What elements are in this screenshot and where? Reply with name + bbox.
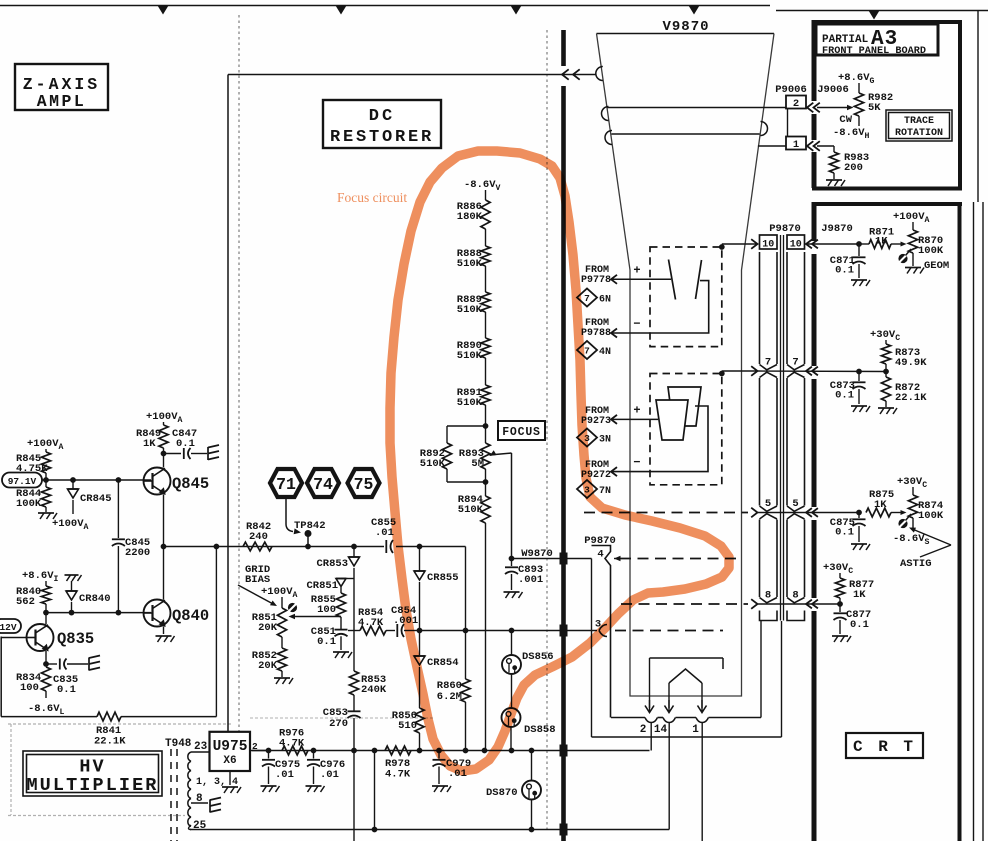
svg-text:0.1: 0.1 [850, 619, 869, 631]
deflection plate dashed box (vertical) [650, 374, 722, 485]
svg-text:X6: X6 [223, 755, 236, 767]
svg-text:DC: DC [369, 107, 395, 126]
svg-text:+100VA: +100VA [261, 586, 298, 600]
ground C875 [851, 543, 867, 545]
svg-text:0.1: 0.1 [835, 527, 854, 539]
wire row3 dashed [615, 630, 723, 632]
svg-text:-8.6VS: -8.6VS [893, 533, 930, 547]
ground C975 [261, 785, 277, 787]
svg-text:10: 10 [790, 240, 802, 251]
transformer T948 winding [188, 752, 191, 826]
wire Q840 base [46, 612, 151, 614]
svg-text:Q845: Q845 [172, 475, 209, 493]
svg-text:C R T: C R T [853, 738, 916, 756]
svg-text:2: 2 [793, 98, 799, 110]
wire bottom bus y=829.5 [190, 829, 567, 831]
resistor R844 100K [41, 487, 50, 507]
capacitor C975 .01 [268, 751, 270, 759]
wire Q845 emitter to node [163, 495, 165, 547]
svg-text:180K: 180K [457, 211, 483, 223]
resistor R841 22.1K [1, 716, 97, 718]
neon lamp DS870 [531, 751, 533, 781]
capacitor C979 .01 [438, 751, 440, 759]
resistor R852 20K [281, 637, 283, 648]
top flow arrows [158, 6, 169, 15]
resistor R983 200 [817, 145, 834, 147]
svg-text:+: + [633, 263, 640, 277]
svg-text:7: 7 [792, 357, 798, 369]
callout oval 12V [0, 619, 21, 633]
svg-text:GEOM: GEOM [924, 260, 949, 272]
svg-text:100K: 100K [918, 245, 944, 257]
ground C871 [851, 279, 867, 281]
svg-text:P9006: P9006 [775, 84, 807, 96]
junction squares on boundary bar [560, 553, 568, 565]
svg-text:J9006: J9006 [817, 84, 849, 96]
node at deflection box top right [719, 244, 725, 250]
label box PARTIAL A3 FRONT PANEL BOARD [816, 24, 938, 55]
svg-text:10: 10 [762, 240, 774, 251]
svg-text:1: 1 [692, 724, 699, 736]
connector row wires and arrows [722, 243, 757, 245]
wire CRT pin14 down [668, 723, 670, 830]
svg-text:+8.6VG: +8.6VG [838, 72, 875, 86]
svg-text:510K: 510K [457, 350, 483, 362]
svg-text:+100VA: +100VA [146, 411, 183, 425]
diode CR851 [341, 578, 354, 580]
svg-text:510K: 510K [457, 258, 483, 270]
svg-text:3N: 3N [599, 435, 611, 446]
neon lamp DS858 [502, 708, 521, 727]
svg-text:+: + [633, 403, 640, 417]
resistor R860 6.2M [461, 679, 470, 702]
CRT base pin arrows down [649, 700, 651, 712]
hexagon test point 75 [348, 469, 380, 497]
resistor R834 100 [41, 667, 50, 691]
svg-text:510K: 510K [457, 397, 483, 409]
svg-text:49.9K: 49.9K [895, 357, 927, 369]
wire right branch down [465, 547, 467, 680]
ground above CR840 [65, 574, 79, 576]
CRT pin bump right (grid) [761, 122, 768, 136]
svg-text:CW: CW [839, 114, 852, 126]
connector P9006 pin 2 [786, 96, 806, 109]
svg-text:-8.6VH: -8.6VH [833, 127, 870, 141]
svg-text:+8.6VI: +8.6VI [22, 570, 59, 584]
svg-text:CR854: CR854 [427, 657, 459, 669]
svg-text:74: 74 [313, 475, 333, 494]
svg-text:P9870: P9870 [769, 223, 801, 235]
diode CR853 [353, 547, 355, 558]
svg-text:4N: 4N [599, 347, 611, 358]
resistor R849 1K [159, 425, 168, 448]
wiper R893 to W9870 [490, 450, 497, 456]
svg-text:0.1: 0.1 [317, 636, 336, 648]
svg-text:Q835: Q835 [57, 630, 94, 648]
label box Z-AXIS AMPL [15, 64, 108, 110]
label box DC RESTORER [323, 100, 441, 148]
svg-text:6.2M: 6.2M [437, 691, 462, 703]
ground R870 [905, 267, 921, 269]
diode CR855 [419, 547, 421, 572]
resistor R873 49.9K [881, 344, 890, 364]
potentiometer R851 20K [277, 608, 286, 637]
svg-text:0.1: 0.1 [57, 684, 76, 696]
capacitor C873 0.1 [858, 372, 860, 382]
svg-text:AMPL: AMPL [37, 92, 87, 111]
ground C873 [851, 405, 867, 407]
scan artifact dotted separator x=547 [546, 30, 548, 831]
resistor R845 4.75K [41, 452, 50, 473]
svg-text:ASTIG: ASTIG [900, 558, 932, 570]
svg-text:−: − [633, 456, 640, 470]
svg-text:FOCUS: FOCUS [502, 426, 541, 439]
svg-text:5: 5 [765, 498, 771, 510]
svg-text:5K: 5K [868, 102, 881, 114]
label box CRT [846, 733, 923, 758]
svg-text:4: 4 [597, 549, 603, 561]
svg-text:20K: 20K [258, 660, 278, 672]
ground R844 [38, 512, 54, 514]
potentiometer R982 5K [854, 93, 863, 116]
wire Q840 collector [163, 547, 165, 600]
wire focus chain down [485, 523, 487, 751]
transformer T948 core [170, 749, 172, 841]
ground C979 [432, 785, 448, 787]
ground C851 [333, 651, 349, 653]
svg-text:2: 2 [640, 724, 647, 736]
svg-text:22.1K: 22.1K [94, 736, 126, 748]
wire Q835 emitter node [45, 651, 47, 664]
wire DS856 string [511, 631, 513, 655]
svg-text:22.1K: 22.1K [895, 392, 927, 404]
node row7 right [883, 369, 889, 375]
svg-text:5M: 5M [471, 458, 484, 470]
capacitor C871 0.1 [858, 244, 860, 256]
svg-text:+100VA: +100VA [52, 518, 89, 532]
CRT grid electrode line B [612, 133, 760, 135]
svg-text:100: 100 [20, 682, 39, 694]
svg-text:DS858: DS858 [524, 724, 556, 736]
svg-text:6N: 6N [599, 295, 611, 306]
connector P9870 rails [759, 252, 761, 364]
capacitor C976 .01 [313, 751, 315, 759]
resistor R888 510K [481, 246, 490, 266]
diode CR840 [71, 581, 73, 591]
page right border lines [977, 11, 979, 203]
svg-text:5: 5 [792, 498, 798, 510]
label box HV MULTIPLIER [23, 751, 162, 796]
svg-text:200: 200 [844, 162, 863, 174]
ground R983 [826, 179, 842, 181]
connector mating faces [780, 235, 782, 621]
wire row4 dashed [620, 558, 737, 560]
wire feedback riser [215, 547, 217, 717]
resistor R872 22.1K [881, 377, 890, 401]
wire T948 pin23 to U975 [191, 751, 210, 753]
svg-text:-8.6VV: -8.6VV [464, 179, 501, 193]
svg-text:510K: 510K [420, 458, 446, 470]
transistor Q835 [27, 624, 54, 651]
heavy board bar A3/CRT board left edge [812, 20, 817, 101]
wire CRT pin1 down [701, 723, 703, 841]
ground C893 [504, 591, 520, 593]
svg-text:P9788: P9788 [581, 328, 611, 339]
wire DC restorer output to CRT cathode [228, 74, 596, 76]
svg-text:4.7K: 4.7K [385, 769, 411, 781]
CRT socket bracket wires [760, 621, 762, 718]
svg-text:PARTIAL: PARTIAL [822, 34, 869, 46]
diode CR845 [72, 480, 74, 489]
wire bottom bus y=750 [252, 750, 650, 752]
svg-text:7: 7 [765, 357, 771, 369]
svg-text:14: 14 [654, 724, 668, 736]
wire bias row y=630 [348, 630, 360, 632]
hexagon test point 71 [270, 469, 302, 497]
node row5 right [856, 510, 862, 516]
resistor R978 4.7K [385, 746, 411, 755]
CRT grid electrode line A [608, 107, 787, 109]
svg-text:510: 510 [398, 720, 417, 732]
capacitor C845 2200 [117, 480, 119, 538]
svg-text:.01: .01 [375, 527, 394, 539]
resistor R890 510K [481, 338, 490, 358]
svg-text:CR851: CR851 [306, 580, 338, 592]
scan artifact dotted separator x=239 [238, 15, 240, 770]
wire from P9778 to plate [612, 278, 671, 280]
CRT envelope [597, 33, 775, 35]
label box FOCUS [498, 421, 545, 440]
capacitor C893 .001 [511, 559, 513, 567]
svg-text:TP842: TP842 [294, 520, 326, 532]
svg-text:+100VA: +100VA [893, 211, 930, 225]
CRT pin bump grid2 [605, 131, 612, 145]
svg-text:CR840: CR840 [79, 593, 111, 605]
resistor R886 180K [481, 200, 490, 229]
wiper R851 [288, 603, 297, 612]
wire P9870-4 bracket [591, 559, 593, 738]
node focus divider bottom [483, 479, 489, 485]
svg-text:75: 75 [354, 475, 374, 494]
svg-text:FRONT PANEL BOARD: FRONT PANEL BOARD [822, 46, 926, 57]
wire T948 pin25 to bus [189, 825, 192, 830]
label box TRACE ROTATION [886, 110, 952, 141]
transistor Q840 [144, 600, 171, 627]
svg-text:97.1V: 97.1V [8, 476, 37, 487]
wire Q835 collector [45, 613, 47, 624]
capacitor C875 0.1 [858, 513, 860, 519]
connector P9006 pin 1 [786, 137, 806, 150]
svg-text:1K: 1K [853, 589, 866, 601]
resistor R892 510K [447, 425, 486, 427]
svg-text:0.1: 0.1 [835, 265, 854, 277]
svg-text:12V: 12V [0, 622, 17, 633]
potentiometer R893 5M (focus) [481, 443, 490, 469]
scan artifact dotted marks near HV multiplier [8, 723, 232, 725]
svg-text:.01: .01 [320, 769, 339, 781]
svg-text:−: − [633, 317, 640, 331]
svg-text:J9870: J9870 [821, 223, 853, 235]
neon lamp DS856 [502, 655, 521, 674]
board outline CRT board (right) [812, 202, 962, 206]
orange highlighter loop around focus circuit [337, 151, 729, 771]
connector P9006 chevrons [807, 103, 813, 113]
callout oval 97.1V [2, 473, 42, 488]
wire U975 pin2 to bus [250, 750, 269, 752]
Q840 emitter to ground [163, 627, 165, 635]
svg-text:7: 7 [584, 293, 590, 304]
page top border line [0, 5, 770, 7]
svg-text:510K: 510K [458, 504, 484, 516]
svg-text:1K: 1K [143, 438, 156, 450]
wire row3 to connector [420, 630, 598, 632]
svg-text:20K: 20K [258, 622, 278, 634]
ground C976 [306, 785, 322, 787]
svg-text:BIAS: BIAS [245, 574, 270, 586]
capacitor C851 0.1 [335, 629, 348, 631]
chassis ground C847 [207, 447, 209, 460]
capacitor C853 270 [348, 710, 361, 712]
svg-text:7: 7 [584, 346, 590, 357]
svg-text:510K: 510K [457, 304, 483, 316]
wire CRT pin1 to P9006-1 [758, 145, 786, 147]
svg-text:DS870: DS870 [486, 787, 518, 799]
node row10 right [856, 241, 862, 247]
wire T948 pin8 tap to chassis [191, 802, 208, 804]
svg-text:25: 25 [193, 820, 207, 832]
svg-text:0.1: 0.1 [176, 438, 195, 450]
heavy board boundary bar (DC restorer / CRT cable) [561, 30, 566, 66]
svg-text:Q840: Q840 [172, 607, 209, 625]
svg-text:100K: 100K [16, 498, 42, 510]
svg-text:U975: U975 [213, 739, 248, 755]
svg-text:RESTORER: RESTORER [330, 128, 434, 147]
svg-text:CR855: CR855 [427, 572, 459, 584]
node at v-deflection box top right [719, 371, 725, 377]
svg-text:V9870: V9870 [662, 19, 709, 35]
potentiometer R870 100K [908, 230, 917, 253]
wire q835 base loop [0, 637, 2, 717]
CRT pin bump cathode [596, 67, 603, 81]
resistor R877 1K [835, 578, 844, 598]
potentiometer R874 100K [908, 495, 917, 518]
node Q845 collector [161, 451, 167, 457]
capacitor C835 0.1 (to chassis) [46, 663, 57, 665]
svg-text:ROTATION: ROTATION [895, 128, 943, 139]
resistor R840 562 [41, 586, 50, 604]
ground C877 [832, 635, 848, 637]
ground R852 [274, 677, 290, 679]
wiper R874 [898, 519, 907, 528]
svg-text:270: 270 [329, 718, 348, 730]
wiper R870 [898, 254, 907, 263]
svg-text:23: 23 [194, 741, 208, 753]
svg-text:CR845: CR845 [80, 493, 112, 505]
svg-text:TRACE: TRACE [904, 116, 934, 127]
resistor R856 510 [415, 708, 424, 733]
deflection plate dashed box (horizontal) [650, 247, 722, 347]
svg-text:T948: T948 [165, 738, 192, 750]
svg-text:562: 562 [16, 596, 35, 608]
svg-text:8: 8 [765, 590, 771, 602]
vertical deflection plates [668, 387, 701, 426]
hexagon 71 arrow to TP842 [286, 498, 293, 532]
svg-text:.001: .001 [518, 574, 543, 586]
svg-text:2200: 2200 [125, 547, 150, 559]
svg-text:240K: 240K [361, 684, 387, 696]
svg-text:8: 8 [792, 590, 798, 602]
svg-text:.01: .01 [275, 769, 294, 781]
svg-text:+100VA: +100VA [27, 438, 64, 452]
resistor R855 100 [340, 587, 342, 593]
svg-text:100: 100 [317, 604, 336, 616]
wire CRT pin2 to bus [650, 723, 652, 751]
CRT pin bump grid1 [602, 107, 609, 121]
svg-text:MULTIPLIER: MULTIPLIER [26, 775, 158, 796]
node row8 right [837, 601, 843, 607]
CRT heater / cathode structure [650, 657, 724, 659]
connector P9870 pin-10 cell boxes [760, 235, 778, 249]
ground R872 [878, 407, 894, 409]
wire riser x=374 between buses [374, 751, 376, 830]
CRT socket pin row 2-14-1 [611, 717, 645, 719]
svg-text:-8.6VL: -8.6VL [28, 703, 65, 717]
hexagon test point 74 [307, 469, 339, 497]
svg-text:71: 71 [276, 475, 296, 494]
wire z-axis output node [164, 546, 385, 548]
diode CR854 [419, 631, 421, 657]
wire from P9273 to plate [612, 418, 658, 420]
capacitor C877 0.1 [839, 604, 841, 612]
wire U975 pins134 to ground [229, 771, 231, 785]
svg-text:Focus circuit: Focus circuit [337, 190, 407, 205]
svg-text:DS856: DS856 [522, 651, 554, 663]
horizontal deflection plates [669, 260, 676, 300]
resistor R894 510K [485, 482, 487, 496]
wire Q835 base [1, 637, 26, 639]
transistor Q845 [144, 468, 171, 495]
svg-text:0.1: 0.1 [835, 390, 854, 402]
resistor R853 240K [349, 671, 358, 695]
svg-text:100K: 100K [918, 510, 944, 522]
svg-text:P9778: P9778 [581, 275, 611, 286]
resistor R889 510K [481, 292, 490, 312]
svg-text:CR853: CR853 [316, 558, 348, 570]
wire Q845 base [42, 479, 151, 481]
svg-text:7N: 7N [599, 486, 611, 497]
node focus divider top [483, 423, 489, 429]
board outline PARTIAL A3 FRONT PANEL BOARD [812, 20, 962, 24]
svg-text:1: 1 [793, 139, 799, 151]
hybrid U975 X6 [210, 732, 251, 771]
resistor R891 510K [481, 385, 490, 405]
